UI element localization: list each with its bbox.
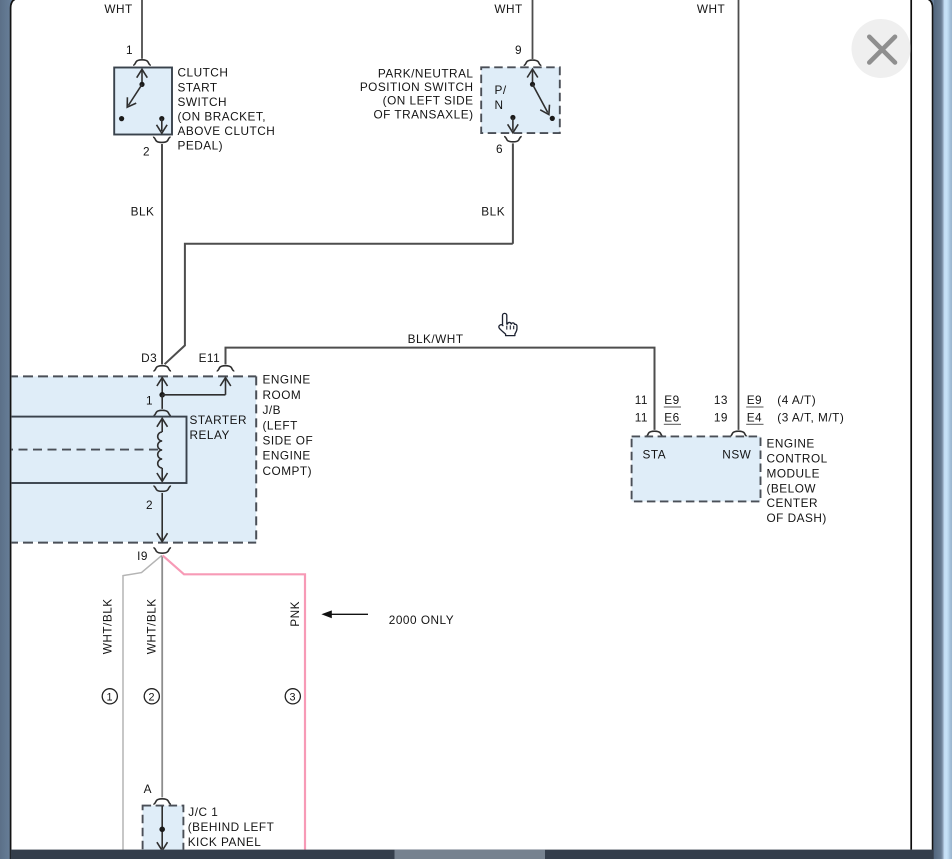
label BLK (left) <box>131 205 155 219</box>
engine room J/B fill <box>8 376 256 542</box>
svg-text:A: A <box>144 782 152 796</box>
P/N switch lower-right contact dot <box>550 116 555 121</box>
engine room J/B dashed right border <box>255 376 257 542</box>
svg-text:SIDE OF: SIDE OF <box>263 434 314 448</box>
P/N switch lower-left contact dot + arrow <box>508 115 519 133</box>
svg-text:BLK: BLK <box>481 205 505 219</box>
engine room J/B name text <box>263 373 314 478</box>
wire node1 down to relay pin 1 <box>161 395 163 409</box>
clutch switch lower-left contact dot <box>119 116 124 121</box>
svg-text:E9: E9 <box>664 393 679 407</box>
wire node1 to E11 with entry arrow <box>162 378 231 395</box>
svg-text:WHT: WHT <box>494 2 522 16</box>
schematic image right border <box>910 0 912 850</box>
svg-text:(ON LEFT SIDE: (ON LEFT SIDE <box>383 94 474 108</box>
wire BLK clutch to D3 <box>161 144 163 364</box>
svg-text:STA: STA <box>643 447 667 461</box>
svg-text:CONTROL: CONTROL <box>767 452 828 466</box>
svg-text:ENGINE: ENGINE <box>767 437 815 451</box>
svg-text:2: 2 <box>143 144 150 158</box>
svg-text:9: 9 <box>515 43 522 57</box>
P/N switch blade with arrow <box>533 84 550 114</box>
svg-text:START: START <box>178 80 218 94</box>
label E11 <box>199 351 221 365</box>
connector arc relay pin 1 <box>153 410 171 415</box>
pin 1 label (clutch) <box>126 43 133 57</box>
pin 9 label <box>515 43 522 57</box>
svg-text:(LEFT: (LEFT <box>263 418 298 432</box>
starter relay dashed divider <box>4 449 158 451</box>
svg-text:1: 1 <box>107 691 114 703</box>
label WHT/BLK (wire 2, rotated) <box>145 598 159 654</box>
svg-text:ABOVE CLUTCH: ABOVE CLUTCH <box>178 124 276 138</box>
starter relay box <box>4 417 187 483</box>
connector arc A <box>153 799 171 804</box>
svg-text:BLK/WHT: BLK/WHT <box>408 332 464 346</box>
svg-text:(3 A/T, M/T): (3 A/T, M/T) <box>777 411 844 425</box>
label WHT (NSW feed) <box>697 2 725 16</box>
svg-text:RELAY: RELAY <box>190 428 230 442</box>
svg-text:ENGINE: ENGINE <box>263 373 311 387</box>
svg-text:PNK: PNK <box>288 601 302 627</box>
wire WHT to clutch start switch pin 1 <box>141 0 143 59</box>
svg-text:(BELOW: (BELOW <box>767 481 817 495</box>
svg-text:19: 19 <box>714 411 728 425</box>
2000 ONLY note arrow <box>321 610 368 618</box>
svg-text:2: 2 <box>149 691 156 703</box>
label WHT/BLK (wire 1, rotated) <box>101 598 115 654</box>
svg-text:(BEHIND LEFT: (BEHIND LEFT <box>188 820 275 834</box>
svg-text:POSITION SWITCH: POSITION SWITCH <box>360 80 474 94</box>
ECM NSW pin name <box>722 447 751 461</box>
park/neutral position switch name text <box>360 67 474 122</box>
svg-text:OF DASH): OF DASH) <box>767 511 827 525</box>
label PNK (rotated) <box>288 601 302 627</box>
P/N switch top contact arrow <box>527 69 538 87</box>
svg-text:CLUTCH: CLUTCH <box>178 66 229 80</box>
svg-text:1: 1 <box>146 393 153 407</box>
svg-text:J/C 1: J/C 1 <box>188 805 218 819</box>
P/N label inside switch <box>495 83 507 112</box>
label WHT (P/N feed) <box>494 2 522 16</box>
window background right strip <box>934 0 952 859</box>
2000 ONLY note text <box>389 613 454 627</box>
connector arc pin 9 <box>524 60 542 65</box>
wire WHT/BLK circuit 1 <box>123 555 162 849</box>
engine control module name text <box>767 437 828 525</box>
svg-text:WHT: WHT <box>104 2 132 16</box>
label WHT (clutch feed) <box>104 2 132 16</box>
label BLK (right) <box>481 205 505 219</box>
svg-text:E4: E4 <box>747 411 762 425</box>
svg-text:WHT/BLK: WHT/BLK <box>145 598 159 654</box>
ECM pin row 1 <box>635 393 816 407</box>
junction connector J/C 1 box <box>143 806 184 852</box>
svg-text:COMPT): COMPT) <box>263 464 313 478</box>
svg-text:6: 6 <box>496 142 503 156</box>
svg-text:11: 11 <box>635 411 648 425</box>
svg-text:2000 ONLY: 2000 ONLY <box>389 613 454 627</box>
wire WHT to P/N switch pin 9 <box>532 0 534 59</box>
svg-text:BLK: BLK <box>131 205 155 219</box>
svg-text:E9: E9 <box>747 393 762 407</box>
engine control module box <box>632 436 761 501</box>
svg-text:ENGINE: ENGINE <box>263 449 311 463</box>
clutch start switch name text <box>178 66 276 153</box>
svg-text:3: 3 <box>290 691 297 703</box>
connector arc E11 <box>217 366 235 371</box>
label A (J/C 1 pin) <box>144 782 152 796</box>
svg-text:CENTER: CENTER <box>767 496 819 510</box>
label D3 <box>141 351 157 365</box>
engine room J/B dashed top border <box>8 375 256 377</box>
svg-text:SWITCH: SWITCH <box>178 95 228 109</box>
connector arc ECM NSW <box>730 431 748 436</box>
svg-text:E6: E6 <box>664 411 679 425</box>
clutch switch top contact arrow <box>137 69 148 87</box>
circled wire number 2 <box>144 689 159 704</box>
label I9 <box>137 549 148 563</box>
svg-text:I9: I9 <box>137 549 148 563</box>
starter relay name text <box>190 413 247 442</box>
svg-text:N: N <box>495 98 504 112</box>
ECM STA pin name <box>643 447 667 461</box>
connector arc pin 1 (clutch) <box>133 60 151 65</box>
svg-text:PARK/NEUTRAL: PARK/NEUTRAL <box>378 67 474 81</box>
D3 entry arrow into J/B <box>157 378 168 395</box>
wire relay pin2 to I9 with exit arrow <box>157 493 168 542</box>
svg-text:PEDAL): PEDAL) <box>178 139 224 153</box>
J/C 1 internal wire with dot and arrow <box>157 806 168 851</box>
label BLK/WHT <box>408 332 464 346</box>
circled wire number 3 <box>285 689 300 704</box>
svg-text:ROOM: ROOM <box>263 388 302 402</box>
svg-text:(ON BRACKET,: (ON BRACKET, <box>178 110 267 124</box>
clutch switch lower-right contact dot + arrow <box>157 116 168 133</box>
horizontal scrollbar thumb <box>395 850 546 859</box>
svg-text:WHT: WHT <box>697 2 725 16</box>
connector arc D3 <box>153 366 171 371</box>
J/C 1 name text <box>188 805 275 849</box>
connector arc I9 <box>153 548 171 553</box>
svg-text:P/: P/ <box>495 83 507 97</box>
svg-text:OF TRANSAXLE): OF TRANSAXLE) <box>373 107 473 121</box>
svg-text:MODULE: MODULE <box>767 466 820 480</box>
svg-text:STARTER: STARTER <box>190 413 247 427</box>
engine room J/B dashed bottom border <box>8 542 256 544</box>
hand cursor <box>499 313 517 335</box>
svg-text:E11: E11 <box>199 351 221 365</box>
circled wire number 1 <box>102 689 117 704</box>
node 1 junction dot <box>159 392 165 398</box>
wire WHT/BLK circuit 2 <box>161 556 163 798</box>
ECM pin row 2 <box>635 411 845 425</box>
svg-text:WHT/BLK: WHT/BLK <box>101 598 115 654</box>
wire BLK P/N to D3 <box>165 143 513 364</box>
pin 2 label (clutch) <box>143 144 150 158</box>
wire BLK/WHT E11 to ECM STA <box>226 348 655 430</box>
close button <box>852 19 911 78</box>
connector arc pin 2 (clutch) <box>153 137 171 142</box>
wire PNK 2000-only <box>163 555 305 849</box>
connector arc ECM STA <box>646 431 664 436</box>
connector arc relay pin 2 <box>153 486 171 491</box>
wire WHT to ECM NSW <box>738 0 740 430</box>
window background left strip <box>0 0 12 859</box>
svg-text:J/B: J/B <box>263 403 282 417</box>
svg-text:1: 1 <box>126 43 133 57</box>
svg-text:13: 13 <box>714 393 728 407</box>
pin 6 label <box>496 142 503 156</box>
starter relay coil K1 <box>157 418 168 481</box>
node 1 label <box>146 393 153 407</box>
connector arc pin 6 <box>504 137 522 142</box>
park/neutral position switch box <box>481 67 560 133</box>
relay pin 2 label <box>146 498 153 512</box>
clutch start switch box <box>114 68 172 135</box>
svg-text:KICK PANEL: KICK PANEL <box>188 835 262 849</box>
svg-text:D3: D3 <box>141 351 157 365</box>
svg-text:2: 2 <box>146 498 153 512</box>
svg-text:(4 A/T): (4 A/T) <box>777 393 816 407</box>
svg-text:11: 11 <box>635 393 648 407</box>
horizontal scrollbar track <box>11 850 934 859</box>
clutch switch blade with arrow <box>127 84 142 107</box>
svg-text:NSW: NSW <box>722 447 751 461</box>
